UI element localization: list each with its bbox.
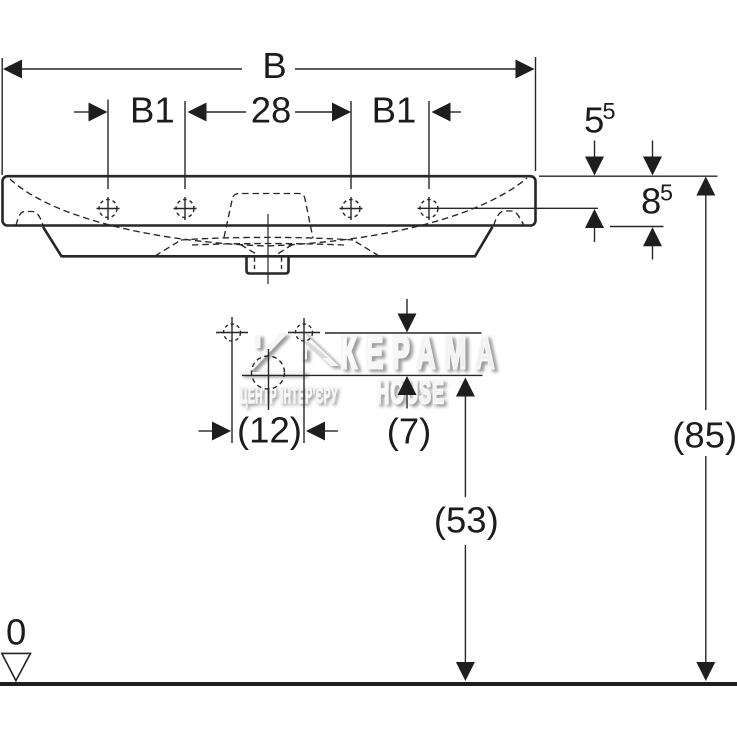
svg-text:0: 0: [6, 612, 26, 653]
svg-text:B1: B1: [130, 89, 175, 130]
svg-text:(7): (7): [387, 411, 432, 452]
svg-text:(85): (85): [672, 415, 737, 456]
svg-text:(12): (12): [237, 410, 302, 451]
svg-text:28: 28: [251, 89, 292, 130]
svg-text:8: 8: [641, 181, 661, 222]
svg-text:B1: B1: [372, 89, 417, 130]
svg-text:5: 5: [603, 98, 616, 124]
svg-text:5: 5: [584, 100, 604, 141]
svg-text:B: B: [262, 45, 286, 86]
svg-text:5: 5: [660, 180, 673, 206]
svg-text:(53): (53): [434, 500, 499, 541]
